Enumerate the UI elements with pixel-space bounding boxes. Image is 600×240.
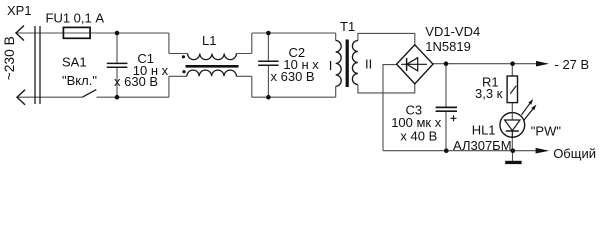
svg-text:"PW": "PW"	[531, 123, 562, 138]
svg-text:II: II	[365, 56, 372, 71]
svg-text:х 630 В: х 630 В	[114, 74, 158, 89]
svg-text:х 630 В: х 630 В	[271, 69, 315, 84]
svg-text:3,3 к: 3,3 к	[475, 86, 503, 101]
svg-text:SA1: SA1	[62, 54, 87, 69]
svg-text:х 40 В: х 40 В	[400, 129, 437, 144]
svg-text:FU1 0,1 А: FU1 0,1 А	[46, 10, 105, 25]
svg-text:VD1-VD4: VD1-VD4	[425, 24, 480, 39]
svg-text:- 27 В: - 27 В	[555, 57, 590, 72]
svg-text:~230 В: ~230 В	[2, 36, 17, 80]
svg-text:L1: L1	[202, 33, 216, 48]
svg-text:T1: T1	[340, 19, 355, 34]
svg-text:1N5819: 1N5819	[425, 39, 471, 54]
svg-text:XP1: XP1	[7, 3, 32, 18]
svg-text:HL1: HL1	[472, 122, 496, 137]
svg-text:I: I	[329, 58, 333, 73]
svg-text:"Вкл.": "Вкл."	[62, 73, 97, 88]
svg-text:АЛ307БМ: АЛ307БМ	[453, 138, 512, 153]
svg-text:Общий: Общий	[553, 146, 596, 161]
